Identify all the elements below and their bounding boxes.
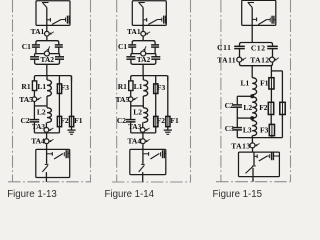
wire C2 to bar 2 (fig 1-14) [130, 122, 132, 133]
svg-text:F3: F3 [61, 83, 70, 92]
svg-text:F2: F2 [157, 116, 166, 125]
wire F3 to bottom bar (fig 1-15) [271, 136, 273, 138]
wire C2 to bar 2 (fig 1-13) [33, 122, 35, 133]
wire F branch from bar (fig 1-15) [270, 66, 272, 78]
svg-text:C11: C11 [217, 43, 231, 52]
wire bottom box to trim line (fig 1-13) [45, 178, 47, 182]
wire L1 to L2 (fig 1-13) [46, 76, 48, 80]
top bar of C1 block (fig 1-14) [132, 41, 155, 45]
wire F1 to ground (fig 1-13) [71, 127, 73, 130]
top bar of C1 block (fig 1-13) [36, 41, 59, 45]
wire C12 to TA12 (fig 1-15) [272, 49, 274, 58]
svg-text:F3: F3 [260, 125, 269, 134]
wire bar1 to F3 (fig 1-14) [155, 76, 157, 84]
wire block to junction bar (fig 1-14) [142, 64, 144, 75]
jack TA2 plug (fig 1-13) [44, 51, 49, 56]
trim border snippet 2 right [190, 0, 192, 182]
hook switch in bottom box (fig 1-15) [252, 165, 256, 167]
receiver in top box (fig 1-14) [161, 18, 163, 22]
wire F1 to ground (fig 1-14) [167, 127, 169, 130]
right branch wire lower (fig 1-15) [281, 115, 283, 138]
hook switch in top box (fig 1-14) [142, 8, 144, 26]
lower capacitor left (fig 1-13) [34, 54, 36, 57]
top bar (fig 1-15) [240, 43, 273, 47]
wire TA1 to C1 block (fig 1-13) [46, 36, 48, 41]
svg-text:L1: L1 [134, 82, 143, 91]
telephone set box bottom (fig 1-14) [130, 149, 166, 174]
svg-text:C1: C1 [22, 42, 31, 51]
wire F2 to F3 (fig 1-15) [270, 115, 272, 125]
trim border snippet 3 bottom [216, 181, 291, 183]
wire bottom box to trim line (fig 1-14) [142, 175, 144, 182]
wire box to TA1 (fig 1-14) [142, 25, 144, 31]
telephone set box bottom (fig 1-13) [36, 149, 70, 177]
wire L2 to TA3 (fig 1-14) [142, 123, 144, 128]
wire bottom box to trim line (fig 1-15) [252, 177, 254, 182]
receiver in bottom box (fig 1-15) [269, 154, 271, 158]
bottom junction bar (fig 1-15) [237, 137, 282, 139]
tee to C2 (fig 1-15) [237, 95, 252, 97]
svg-text:TA2: TA2 [137, 55, 151, 64]
svg-text:TA2: TA2 [40, 55, 54, 64]
svg-text:Figure 1-15: Figure 1-15 [213, 189, 263, 200]
receiver in top box (fig 1-15) [269, 18, 271, 22]
svg-text:F1: F1 [74, 116, 83, 125]
wire R1 to TA5 (fig 1-13) [33, 91, 35, 97]
svg-text:L2: L2 [243, 103, 252, 112]
ground (fig 1-14) [164, 129, 172, 131]
junction dot B (fig 1-15) [250, 116, 254, 120]
wire bar to TA13 (fig 1-15) [251, 138, 253, 143]
wire L2 to TA3 (fig 1-13) [45, 123, 47, 128]
right branch wire upper (fig 1-15) [281, 71, 283, 102]
wire TA4 to bottom box (fig 1-13) [46, 144, 48, 150]
lower capacitor left (fig 1-14) [130, 54, 132, 57]
hook switch in top box (fig 1-13) [46, 8, 48, 26]
middle bar of C1 block (fig 1-13) [35, 53, 60, 55]
wire F3 to F2 (fig 1-13) [58, 94, 60, 117]
bottom bar of C1 block (fig 1-13) [35, 62, 60, 64]
receiver in bottom box (fig 1-13) [63, 152, 65, 156]
svg-text:Figure 1-13: Figure 1-13 [7, 189, 57, 200]
wire TA1 to C1 block (fig 1-14) [142, 36, 144, 41]
svg-text:TA13: TA13 [231, 141, 250, 150]
wire box to TA1 (fig 1-13) [46, 25, 48, 31]
telephone set box top (fig 1-13) [36, 1, 70, 26]
svg-text:C3: C3 [225, 124, 234, 133]
wire L3 to bottom bar (fig 1-15) [251, 136, 253, 138]
svg-text:L2: L2 [133, 108, 142, 117]
fuse F2 (fig 1-13) [57, 116, 61, 126]
wire bar2 to TA4 (fig 1-14) [142, 133, 144, 139]
trim border snippet 2 bottom [112, 181, 191, 183]
tee TA5 to coil axis (fig 1-13) [34, 105, 47, 107]
trim border snippet 2 left [116, 0, 118, 182]
junction bar 1 (fig 1-13) [34, 76, 71, 81]
wire TA13 to bottom box (fig 1-15) [252, 148, 254, 152]
svg-text:F1: F1 [170, 116, 179, 125]
tee to C3 (fig 1-15) [237, 117, 252, 119]
svg-text:Figure 1-14: Figure 1-14 [105, 189, 155, 200]
wire bar1 to F3 (fig 1-13) [58, 76, 60, 84]
receiver switch in top box (fig 1-13) [47, 19, 50, 21]
wire F2 to bar 2 (fig 1-13) [58, 127, 60, 133]
wire box to top bar (fig 1-15) [251, 25, 253, 42]
trim border snippet 1 right [90, 0, 92, 182]
receiver switch in bottom box (fig 1-13) [46, 149, 48, 163]
wires caps to middle bar (fig 1-13) [35, 47, 37, 54]
svg-text:F3: F3 [157, 83, 166, 92]
fuse F3 (fig 1-13) [57, 84, 61, 94]
telephone set box top (fig 1-14) [132, 1, 166, 26]
ground (fig 1-13) [67, 129, 75, 131]
svg-text:TA1: TA1 [127, 27, 141, 36]
fuse F1 (fig 1-14) [166, 116, 170, 126]
svg-text:TA3: TA3 [32, 123, 45, 131]
wire R1 to TA5 (fig 1-14) [130, 91, 132, 97]
svg-text:C1: C1 [118, 42, 127, 51]
telephone set box bottom (fig 1-15) [239, 152, 280, 177]
svg-text:TA4: TA4 [31, 137, 45, 146]
svg-text:TA1: TA1 [31, 27, 45, 36]
wire TA5 down (fig 1-13) [33, 102, 35, 120]
junction bar 2 (fig 1-14) [131, 132, 156, 134]
telephone set box top (fig 1-15) [242, 0, 276, 25]
svg-text:L3: L3 [243, 125, 252, 134]
svg-text:R1: R1 [21, 82, 30, 91]
bottom bar of cap block (fig 1-15) [239, 62, 241, 64]
svg-text:TA12: TA12 [250, 55, 269, 64]
trim border snippet 1 left [12, 0, 14, 182]
trim border snippet 1 bottom [8, 181, 91, 183]
svg-text:C12: C12 [251, 44, 266, 53]
trim border snippet 3 right [290, 0, 292, 182]
svg-text:TA5: TA5 [19, 95, 33, 104]
lower capacitor right (fig 1-14) [155, 54, 157, 57]
svg-text:R1: R1 [118, 82, 127, 91]
svg-text:F2: F2 [259, 103, 268, 112]
svg-text:F2: F2 [60, 116, 69, 125]
hook switch in top box (fig 1-15) [251, 8, 253, 26]
receiver switch in bottom box (fig 1-14) [142, 149, 144, 163]
wire L1 to junction (fig 1-15) [251, 95, 253, 97]
svg-text:F1: F1 [260, 79, 269, 88]
tee to right branch (fig 1-15) [271, 70, 282, 72]
wire L1 to L2 (fig 1-14) [142, 76, 144, 80]
svg-text:C2: C2 [21, 116, 30, 125]
receiver switch in top box (fig 1-15) [252, 18, 256, 20]
junction dot A (fig 1-15) [250, 94, 254, 98]
wire block to junction bar (fig 1-13) [46, 64, 48, 75]
junction bar 2 (fig 1-13) [34, 132, 59, 134]
wires caps to middle bar (fig 1-14) [131, 47, 133, 54]
trim border snippet 3 left [220, 0, 222, 182]
fuse F2 (fig 1-14) [154, 116, 158, 126]
svg-text:L1: L1 [37, 82, 46, 91]
tee TA5 to coil axis (fig 1-14) [131, 105, 144, 107]
svg-text:L1: L1 [241, 79, 250, 88]
wire F2 to bar 2 (fig 1-14) [155, 127, 157, 133]
receiver in bottom box (fig 1-14) [160, 152, 162, 156]
receiver switch in bottom box (fig 1-15) [253, 152, 255, 165]
wire bar1 to F1 (fig 1-13) [71, 76, 73, 117]
middle bar of C1 block (fig 1-14) [131, 53, 156, 55]
hook switch in bottom box (fig 1-14) [141, 163, 145, 165]
wire bar1 to F1 (fig 1-14) [167, 76, 169, 117]
wire bar2 to TA4 (fig 1-13) [46, 133, 48, 139]
junction bar 1 (fig 1-14) [131, 76, 168, 81]
receiver in top box (fig 1-13) [65, 18, 67, 22]
svg-text:C2: C2 [225, 101, 234, 110]
wire TA4 to bottom box (fig 1-14) [142, 144, 144, 150]
fuse F1 (fig 1-13) [70, 116, 74, 126]
wire F1 to F2 (fig 1-15) [270, 89, 272, 102]
jack TA2 plug (fig 1-14) [141, 51, 146, 56]
svg-text:TA11: TA11 [217, 55, 236, 64]
svg-text:TA4: TA4 [127, 137, 141, 146]
svg-text:TA5: TA5 [116, 95, 130, 104]
wire bar to L1 (fig 1-15) [251, 66, 253, 78]
svg-text:TA3: TA3 [128, 123, 141, 131]
receiver switch in top box (fig 1-14) [143, 19, 146, 21]
capacitor C1 right (fig 1-14) [151, 44, 159, 46]
svg-text:L2: L2 [37, 108, 46, 117]
hook switch in bottom box (fig 1-13) [45, 163, 49, 165]
wire F3 to F2 (fig 1-14) [155, 94, 157, 117]
wire C11 to TA11 (fig 1-15) [239, 49, 241, 58]
fuse right unlabeled (fig 1-15) [280, 102, 285, 114]
bottom bar of C1 block (fig 1-14) [131, 62, 156, 64]
capacitor C1 right (fig 1-13) [55, 44, 63, 46]
wire TA5 down (fig 1-14) [130, 102, 132, 120]
fuse F3 (fig 1-14) [154, 84, 158, 94]
lower capacitor right (fig 1-13) [59, 54, 61, 57]
svg-text:C2: C2 [117, 116, 126, 125]
